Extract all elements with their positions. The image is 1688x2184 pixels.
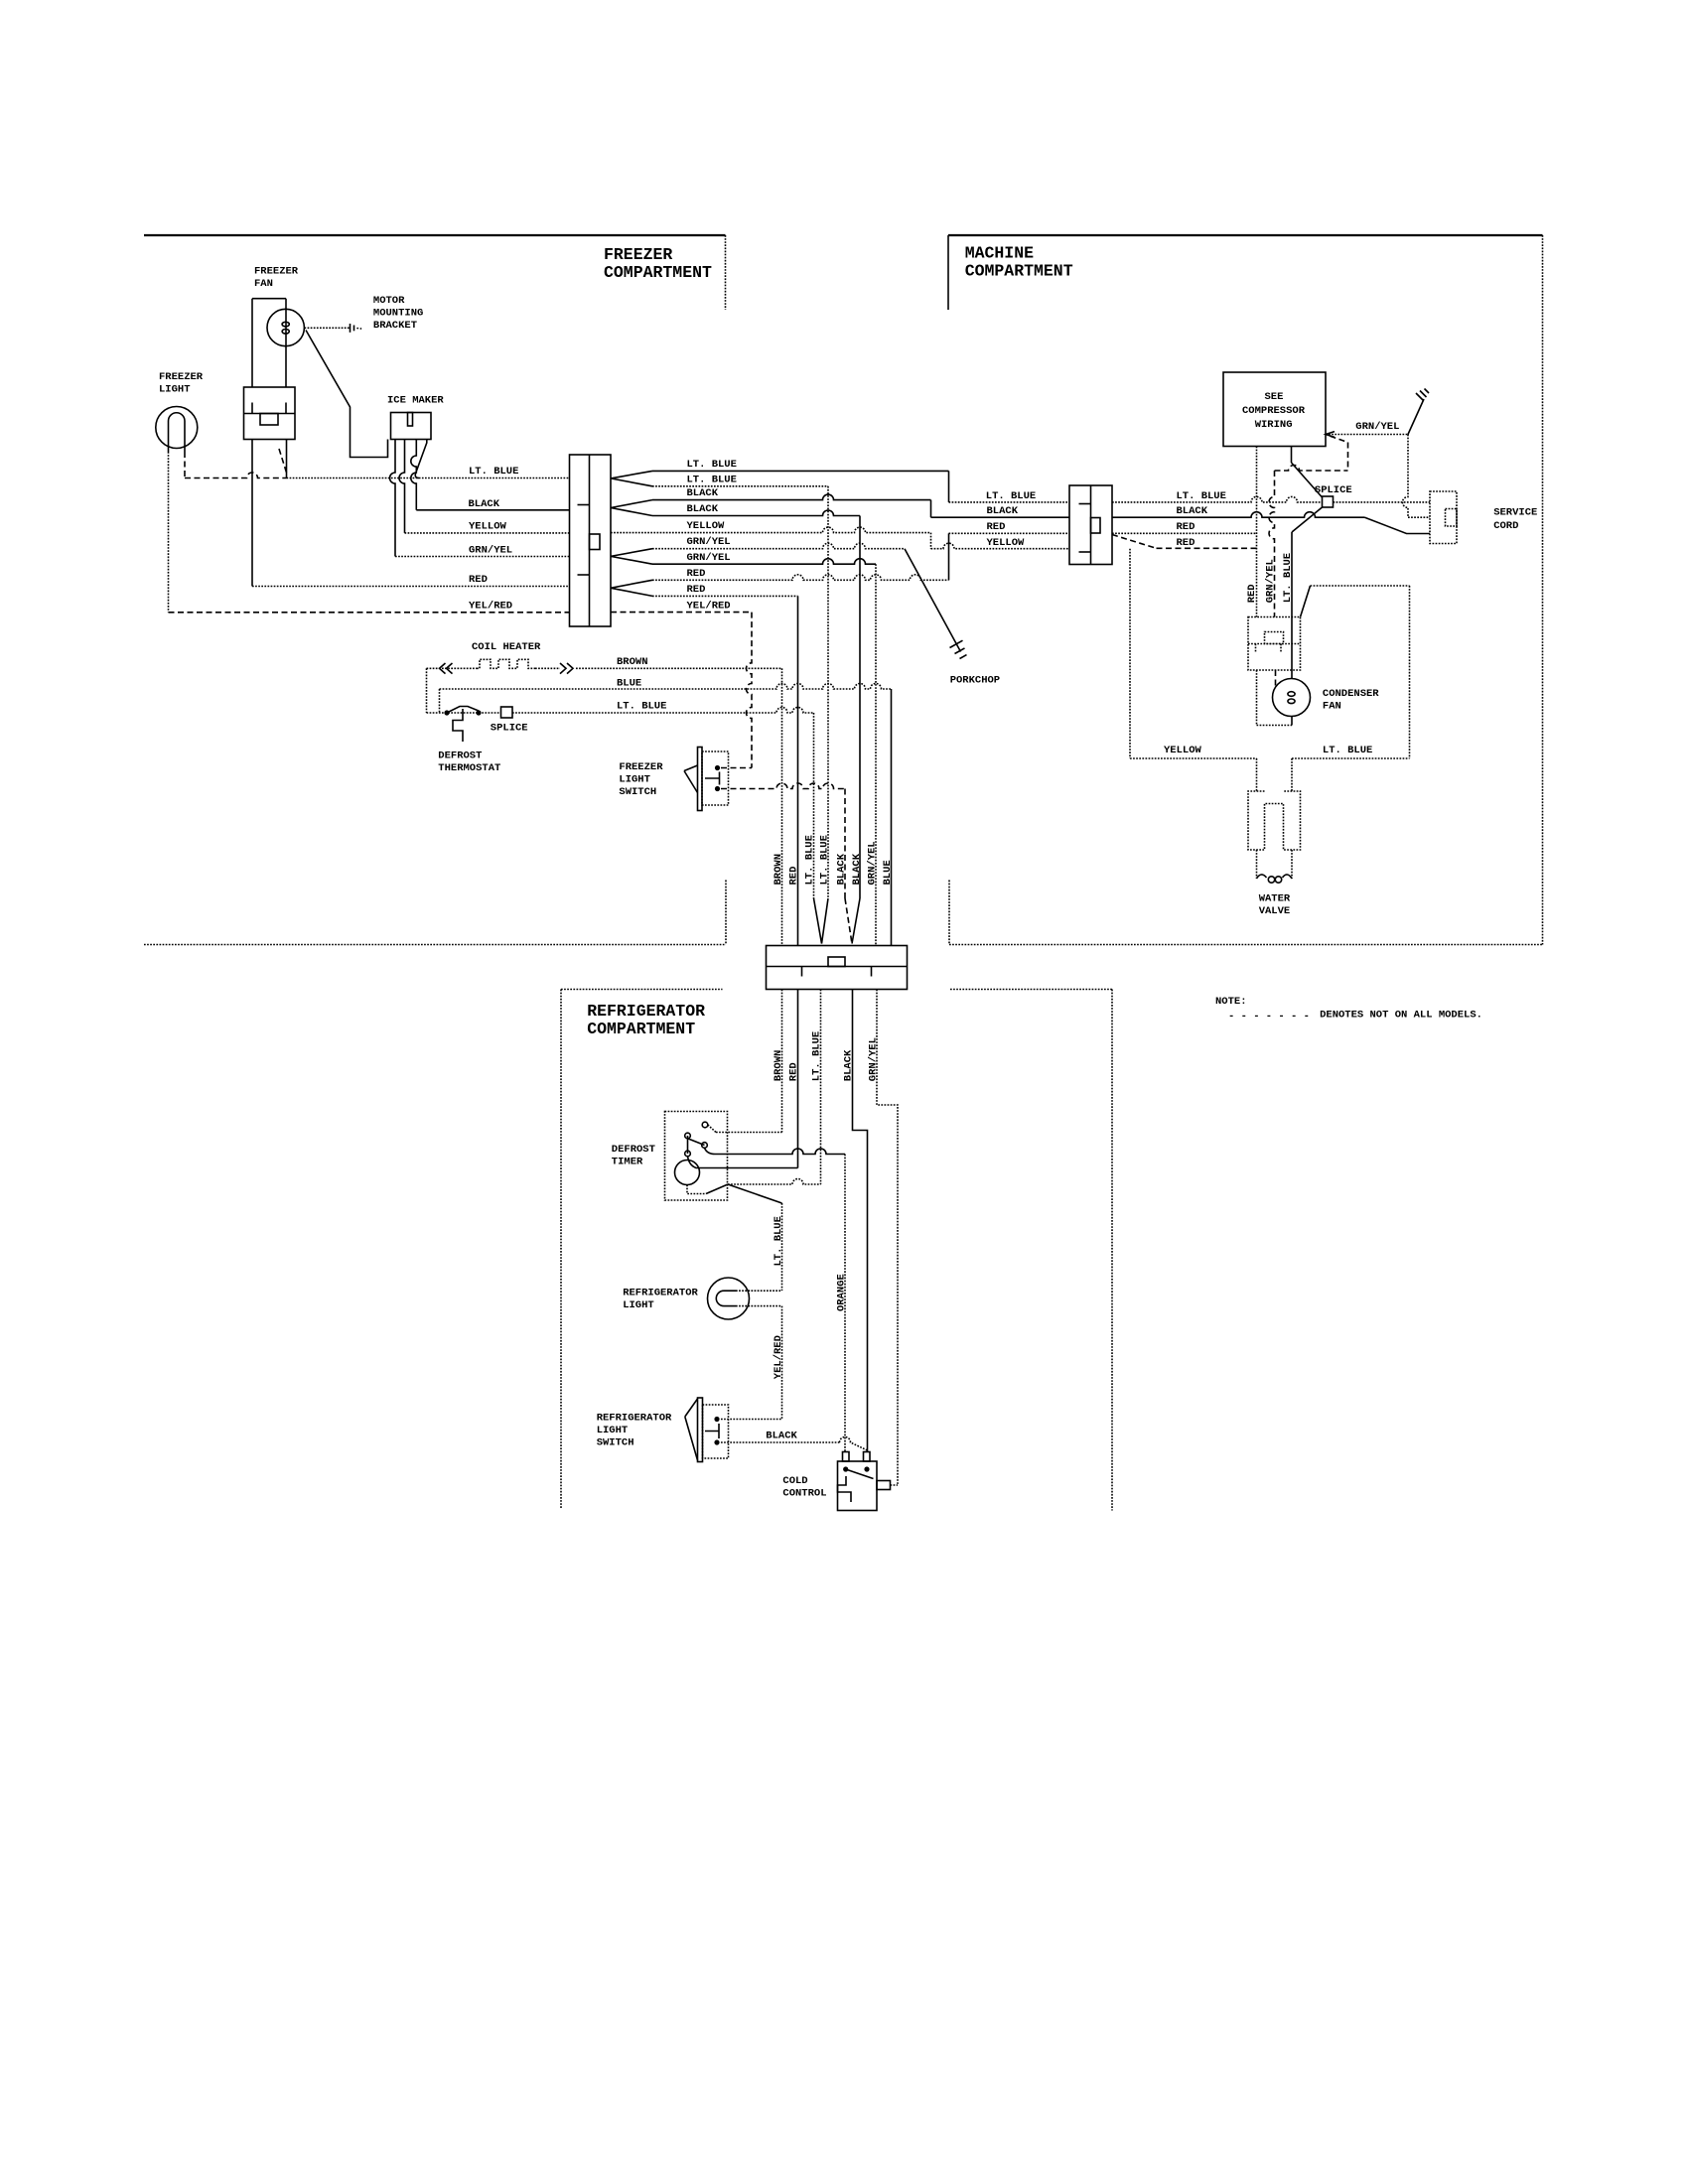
- wire LT BLUE to machine connector: [949, 501, 1070, 503]
- machine compartment right border: [1542, 235, 1544, 945]
- node BLACK step down: [930, 500, 932, 518]
- defrost thermostat lever: [447, 707, 479, 714]
- cold control label: [782, 1475, 826, 1500]
- service cord connector: [1430, 491, 1457, 544]
- wire LT BLUE to freezer connector: [287, 478, 570, 479]
- splice square machine: [1323, 496, 1334, 507]
- svg-text:CONDENSER: CONDENSER: [1323, 688, 1379, 700]
- wire LT BLUE to refr light diagonal: [728, 1184, 782, 1203]
- label YELLOW left: [469, 521, 507, 533]
- wire switch top dashed: [721, 767, 752, 769]
- machine compartment bottom border: [949, 881, 1543, 945]
- wire vertical LT BLUE heater: [813, 713, 815, 898]
- wire RED to machine connector: [949, 532, 1070, 534]
- wire vertical GRN/YEL to refr connector: [875, 564, 877, 945]
- note label: [1215, 996, 1247, 1008]
- wire taper LT BLUE pair: [611, 471, 652, 485]
- wire fan diagonal to ice maker: [306, 331, 388, 458]
- wire YELLOW to step: [611, 527, 931, 533]
- machine compartment top border: [948, 234, 1543, 236]
- porkchop label: [950, 675, 1000, 687]
- freezer compartment top border: [144, 234, 726, 236]
- svg-text:BLACK: BLACK: [687, 487, 719, 499]
- condenser fan motor M2: [1273, 679, 1311, 717]
- wire vertical BLACK to refr connector: [859, 516, 861, 899]
- wire vertical GRN/YEL dashed to relay: [1269, 471, 1275, 617]
- svg-text:REFRIGERATOR: REFRIGERATOR: [587, 1002, 705, 1021]
- defrost thermostat label: [438, 751, 500, 775]
- svg-text:GRN/YEL: GRN/YEL: [469, 544, 512, 556]
- label YELLOW bottom: [1164, 745, 1202, 756]
- svg-text:FREEZER: FREEZER: [604, 245, 672, 264]
- refrigerator light label: [623, 1287, 698, 1311]
- svg-text:RED: RED: [1177, 537, 1196, 549]
- refrigerator compartment left border: [560, 990, 562, 1510]
- refrigerator compartment top border: [561, 989, 1112, 991]
- wire GRN/YEL porkchop feed: [652, 543, 905, 549]
- label BLUE: [617, 678, 641, 690]
- svg-text:LIGHT: LIGHT: [623, 1299, 654, 1311]
- label BLACK lower: [687, 503, 719, 515]
- svg-text:SPLICE: SPLICE: [491, 722, 528, 734]
- label RED lower: [687, 584, 706, 596]
- refrigerator light switch body: [703, 1405, 729, 1458]
- freezer light switch terminals: [715, 765, 720, 791]
- wire RED machine dotted: [1112, 532, 1257, 534]
- wire YELLOW to freezer connector: [405, 532, 570, 534]
- svg-text:ORANGE: ORANGE: [836, 1274, 848, 1311]
- cold control right stub: [877, 1481, 891, 1490]
- wire vertical RED below: [797, 990, 799, 1168]
- water valve coil: [1257, 875, 1293, 883]
- node LT BLUE corner down: [948, 471, 950, 502]
- node RED riser up: [948, 533, 950, 580]
- svg-text:LT. BLUE: LT. BLUE: [687, 475, 737, 486]
- vertical wire labels machine: [1246, 553, 1294, 603]
- see compressor wiring label: [1242, 391, 1306, 431]
- wire taper LT BLUE merge: [814, 898, 829, 944]
- wire ORANGE from timer: [705, 1148, 846, 1154]
- refrigerator compartment right border: [1111, 990, 1113, 1511]
- svg-text:CORD: CORD: [1493, 520, 1518, 532]
- label BLACK left: [469, 498, 500, 510]
- svg-text:RED: RED: [1246, 584, 1258, 603]
- machine compartment title: [965, 244, 1073, 281]
- svg-text:FREEZER: FREEZER: [619, 761, 663, 773]
- ice maker lead YELLOW: [399, 440, 405, 533]
- svg-text:GRN/YEL: GRN/YEL: [687, 552, 731, 564]
- wire relay GRN/YEL lead: [1275, 670, 1277, 687]
- svg-text:WATER: WATER: [1259, 893, 1291, 905]
- svg-text:BLUE: BLUE: [617, 678, 641, 690]
- label LT BLUE upper: [687, 459, 737, 471]
- svg-text:COLD: COLD: [782, 1475, 807, 1487]
- svg-text:SERVICE: SERVICE: [1493, 506, 1537, 518]
- svg-text:REFRIGERATOR: REFRIGERATOR: [597, 1413, 672, 1425]
- porkchop hash marks: [950, 640, 967, 658]
- wire taper BLACK pair: [611, 500, 652, 516]
- wire RED down branch: [652, 595, 798, 597]
- water valve label: [1259, 893, 1291, 918]
- freezer light lamp: [156, 407, 198, 453]
- vertical wire labels above connector: [773, 835, 894, 885]
- cold control bellows: [838, 1476, 852, 1502]
- wire freezer light right lead dashed: [184, 452, 186, 478]
- wire BLACK hop and diagonal to cold control: [840, 1437, 868, 1451]
- svg-text:CONTROL: CONTROL: [782, 1488, 826, 1500]
- svg-text:LT. BLUE: LT. BLUE: [773, 1216, 784, 1266]
- svg-text:BLUE: BLUE: [882, 860, 894, 885]
- svg-text:GRN/YEL: GRN/YEL: [1355, 421, 1399, 433]
- wire fan to motor mounting bracket: [305, 327, 351, 329]
- label BLACK wire: [766, 1430, 797, 1441]
- wire vertical GRN/YEL below: [877, 990, 898, 1486]
- label LT BLUE bottom: [1323, 745, 1372, 756]
- svg-text:LIGHT: LIGHT: [159, 384, 191, 396]
- wire LT BLUE dashed from freezer light: [185, 473, 287, 478]
- refrigerator light switch plate: [698, 1398, 703, 1462]
- svg-text:PORKCHOP: PORKCHOP: [950, 675, 1000, 687]
- cold control contacts: [843, 1466, 870, 1471]
- refrigerator connector P2: [767, 946, 908, 990]
- svg-text:YELLOW: YELLOW: [469, 521, 507, 533]
- cold control lever: [846, 1469, 874, 1479]
- svg-text:WIRING: WIRING: [1255, 419, 1293, 431]
- wire YEL/RED to freezer connector: [169, 612, 570, 614]
- freezer fan bracket box: [244, 387, 296, 440]
- svg-text:RED: RED: [687, 568, 706, 580]
- freezer fan motor M1: [267, 309, 304, 345]
- defrost timer box: [665, 1112, 728, 1201]
- refrigerator light switch terminals: [714, 1417, 719, 1445]
- svg-text:VALVE: VALVE: [1259, 905, 1291, 917]
- motor mounting bracket symbol: [351, 324, 362, 333]
- svg-text:DEFROST: DEFROST: [438, 751, 482, 762]
- wire BROWN to corner: [576, 667, 782, 669]
- wire BLUE line: [440, 684, 892, 690]
- label BROWN: [617, 656, 648, 668]
- svg-text:RED: RED: [687, 584, 706, 596]
- freezer light switch label: [619, 761, 663, 798]
- node YELLOW step down: [930, 533, 932, 549]
- refrigerator compartment title: [587, 1002, 705, 1038]
- wire YEL/RED into switch: [721, 1419, 782, 1421]
- ice maker label: [387, 395, 444, 407]
- coil heater element BROWN line: [427, 659, 574, 673]
- label ORANGE vertical: [836, 1274, 848, 1311]
- defrost timer lever: [688, 1136, 705, 1154]
- wire YEL/RED to light switch: [611, 612, 752, 614]
- wire light top lead: [736, 1290, 782, 1292]
- wire RED dashed from connector: [1112, 535, 1257, 549]
- wire BLACK to service cord: [1112, 512, 1430, 534]
- wire porkchop diagonal: [905, 549, 961, 652]
- splice label machine: [1315, 484, 1352, 496]
- label GRN/YEL lower: [687, 552, 731, 564]
- svg-text:RED: RED: [987, 521, 1006, 533]
- wire vertical LT BLUE below: [820, 990, 822, 1185]
- svg-text:DEFROST: DEFROST: [612, 1144, 655, 1156]
- wire vertical LT BLUE to refr connector: [827, 486, 829, 898]
- cold control terminal stubs: [843, 1452, 871, 1462]
- svg-text:LT. BLUE: LT. BLUE: [986, 490, 1036, 502]
- wire condenser fan bottom lead: [1291, 717, 1293, 726]
- wire taper RED pair: [611, 580, 652, 596]
- vertical wire labels below connector: [773, 1031, 880, 1081]
- wire bracket right lead to LT BLUE: [286, 440, 288, 478]
- svg-text:COMPARTMENT: COMPARTMENT: [965, 261, 1073, 280]
- wire RED into timer: [688, 1157, 798, 1168]
- svg-text:LIGHT: LIGHT: [619, 774, 650, 786]
- wire vertical BLACK dashed: [844, 789, 846, 899]
- svg-text:SWITCH: SWITCH: [619, 786, 656, 798]
- wire BROWN into timer: [708, 1125, 782, 1133]
- svg-text:BLACK: BLACK: [987, 505, 1019, 517]
- label LT BLUE heater: [617, 700, 666, 712]
- wire freezer light left lead YEL/RED: [168, 452, 170, 613]
- label LT BLUE left: [469, 466, 518, 478]
- svg-text:LT. BLUE: LT. BLUE: [1282, 553, 1294, 603]
- wire vertical YEL/RED dashed: [747, 613, 753, 768]
- svg-text:LT. BLUE: LT. BLUE: [1323, 745, 1372, 756]
- svg-text:FREEZER: FREEZER: [254, 265, 299, 277]
- label RED machine right: [1177, 521, 1196, 533]
- wire LT BLUE loop to water valve: [1292, 586, 1410, 791]
- wire YELLOW to machine connector: [931, 543, 1070, 549]
- compressor relay box: [1248, 617, 1301, 671]
- wire YELLOW down from connector: [1129, 549, 1131, 758]
- svg-text:RED: RED: [788, 867, 800, 886]
- service cord label: [1493, 506, 1537, 532]
- defrost timer label: [612, 1144, 655, 1168]
- svg-text:YELLOW: YELLOW: [687, 520, 726, 532]
- svg-text:GRN/YEL: GRN/YEL: [1265, 559, 1277, 603]
- wire RED to freezer connector: [252, 586, 570, 588]
- svg-text:MOUNTING: MOUNTING: [373, 308, 423, 320]
- svg-text:DENOTES NOT ON ALL MODELS.: DENOTES NOT ON ALL MODELS.: [1320, 1010, 1482, 1022]
- freezer connector P1: [570, 455, 612, 626]
- wire bracket left lead to RED: [251, 440, 253, 587]
- svg-text:BLACK: BLACK: [1177, 505, 1208, 517]
- label YELLOW mid: [687, 520, 726, 532]
- svg-text:BROWN: BROWN: [617, 656, 648, 668]
- wire freezer fan top rail: [252, 298, 286, 300]
- freezer light switch body: [702, 751, 729, 805]
- splice square freezer: [501, 707, 513, 718]
- svg-text:COMPRESSOR: COMPRESSOR: [1242, 405, 1306, 417]
- refrigerator light switch label: [597, 1413, 672, 1449]
- label GRN/YEL left: [469, 544, 512, 556]
- svg-text:REFRIGERATOR: REFRIGERATOR: [623, 1287, 698, 1298]
- wire LT BLUE to splice: [1112, 496, 1323, 502]
- svg-text:COMPARTMENT: COMPARTMENT: [604, 263, 712, 282]
- see compressor wiring box: [1223, 372, 1326, 447]
- note text: [1320, 1010, 1482, 1022]
- wire BLACK to freezer connector: [416, 509, 569, 511]
- machine compartment left border stub: [947, 235, 949, 310]
- svg-text:FREEZER: FREEZER: [159, 371, 204, 383]
- svg-text:LIGHT: LIGHT: [597, 1425, 629, 1436]
- wire BLACK down branch: [652, 510, 860, 515]
- defrost thermostat sensor: [453, 709, 463, 742]
- defrost thermostat contacts: [444, 710, 481, 715]
- machine connector P3: [1069, 485, 1112, 565]
- svg-text:RED: RED: [1177, 521, 1196, 533]
- wire LT BLUE splice to service cord: [1334, 501, 1431, 503]
- label LT BLUE machine right: [1177, 490, 1226, 502]
- wire relay left lead: [1257, 670, 1293, 726]
- ice maker box: [391, 413, 432, 440]
- ice maker lead LT BLUE: [415, 440, 427, 478]
- svg-text:NOTE:: NOTE:: [1215, 996, 1247, 1008]
- label BLACK upper: [687, 487, 719, 499]
- wire vertical RED to refr connector: [797, 596, 799, 945]
- condenser fan label: [1323, 688, 1379, 713]
- svg-text:LT. BLUE: LT. BLUE: [617, 700, 666, 712]
- wire LT BLUE compressor to splice: [1292, 447, 1323, 498]
- note dash sample: [1228, 1011, 1310, 1023]
- wire LT BLUE solid to machine: [652, 470, 949, 472]
- svg-text:ICE MAKER: ICE MAKER: [387, 395, 444, 407]
- freezer light switch flag: [684, 765, 698, 793]
- wire vertical YEL/RED to switch: [781, 1306, 783, 1420]
- wire vertical RED to relay: [1256, 447, 1258, 617]
- wire GRN/YEL with arrow: [1326, 432, 1408, 438]
- wire dashed stub at bracket: [279, 449, 287, 473]
- freezer compartment bottom border: [144, 881, 726, 945]
- svg-text:YEL/RED: YEL/RED: [773, 1335, 784, 1379]
- svg-text:BLACK: BLACK: [766, 1430, 797, 1441]
- svg-text:YELLOW: YELLOW: [987, 537, 1026, 549]
- label LT BLUE vertical: [773, 1216, 784, 1266]
- svg-text:- - - - - - -: - - - - - - -: [1228, 1011, 1310, 1023]
- svg-text:MOTOR: MOTOR: [373, 295, 405, 307]
- node coil heater left corner: [426, 668, 428, 713]
- freezer light label: [159, 371, 204, 396]
- wire splice diagonal to LT BLUE vertical: [1292, 507, 1323, 679]
- svg-text:FAN: FAN: [1323, 700, 1341, 712]
- wire vertical BROWN below: [781, 990, 783, 1133]
- svg-text:GRN/YEL: GRN/YEL: [868, 1037, 880, 1081]
- water valve box: [1248, 791, 1301, 850]
- refrigerator light switch flag: [685, 1399, 698, 1460]
- wire freezer fan left lead: [251, 299, 253, 387]
- wire LT BLUE into timer: [728, 1179, 821, 1184]
- defrost timer contacts: [685, 1122, 708, 1157]
- svg-text:COMPARTMENT: COMPARTMENT: [587, 1020, 695, 1038]
- svg-text:COIL HEATER: COIL HEATER: [472, 641, 541, 653]
- refrigerator light switch actuator: [705, 1424, 719, 1438]
- svg-text:LT. BLUE: LT. BLUE: [687, 459, 737, 471]
- wire LT BLUE dotted down branch: [652, 485, 828, 487]
- svg-text:SEE: SEE: [1265, 391, 1284, 403]
- wire vertical GRN/YEL to service cord: [1403, 435, 1431, 518]
- freezer light switch actuator: [705, 772, 720, 785]
- svg-text:BLACK: BLACK: [851, 853, 863, 885]
- svg-text:YELLOW: YELLOW: [1164, 745, 1202, 756]
- freezer fan label: [254, 265, 299, 290]
- defrost timer motor: [675, 1160, 700, 1185]
- wire vertical BROWN: [781, 668, 783, 945]
- label RED left: [469, 574, 488, 586]
- label LT BLUE dotted: [687, 475, 737, 486]
- wire light bottom lead: [736, 1305, 782, 1307]
- svg-text:BRACKET: BRACKET: [373, 320, 417, 332]
- wire GRN/YEL into cold control: [891, 1484, 899, 1486]
- freezer light switch plate: [698, 748, 703, 811]
- wire GRN/YEL down branch: [652, 559, 876, 565]
- wire freezer fan right lead: [285, 299, 287, 387]
- wire LT BLUE heater line: [512, 708, 814, 714]
- wire thermostat segment: [427, 712, 501, 714]
- svg-text:TIMER: TIMER: [612, 1156, 643, 1167]
- svg-text:BLACK: BLACK: [687, 503, 719, 515]
- svg-text:SWITCH: SWITCH: [597, 1437, 634, 1449]
- wire switch bottom dashed BLACK: [721, 783, 845, 789]
- svg-text:BLACK: BLACK: [469, 498, 500, 510]
- ice maker lead BLACK: [411, 440, 416, 510]
- svg-text:LT. BLUE: LT. BLUE: [819, 835, 831, 885]
- refrigerator light lamp: [708, 1278, 750, 1319]
- wire BLACK to machine connector: [931, 516, 1070, 518]
- label YEL/RED vertical: [773, 1335, 784, 1379]
- svg-text:GRN/YEL: GRN/YEL: [687, 536, 731, 548]
- wire taper GRN/YEL pair: [611, 549, 652, 565]
- freezer compartment right border stub: [725, 235, 727, 310]
- svg-text:RED: RED: [469, 574, 488, 586]
- svg-text:SPLICE: SPLICE: [1315, 484, 1352, 496]
- wire GRN/YEL antenna: [1408, 389, 1429, 435]
- label RED dashed right: [1177, 537, 1196, 549]
- svg-text:LT. BLUE: LT. BLUE: [1177, 490, 1226, 502]
- wire RED to machine riser: [652, 575, 949, 581]
- motor mounting bracket label: [373, 295, 423, 332]
- wire GRN/YEL dashed branch: [1275, 436, 1348, 471]
- label YEL/RED right: [687, 600, 731, 612]
- svg-text:BLACK: BLACK: [836, 853, 848, 885]
- label RED machine left: [987, 521, 1006, 533]
- wire GRN/YEL to freezer connector: [395, 556, 570, 558]
- svg-text:YEL/RED: YEL/RED: [469, 600, 512, 612]
- label GRN/YEL upper: [687, 536, 731, 548]
- splice label freezer: [491, 722, 528, 734]
- svg-text:MACHINE: MACHINE: [965, 244, 1034, 263]
- svg-text:YEL/RED: YEL/RED: [687, 600, 731, 612]
- svg-text:LT. BLUE: LT. BLUE: [469, 466, 518, 478]
- cold control box: [838, 1461, 878, 1511]
- wire BLACK solid to machine: [652, 494, 931, 500]
- wire vertical BLUE to refr connector: [891, 689, 893, 946]
- wire water valve left lead: [1256, 850, 1258, 879]
- wire timer motor junction: [687, 1184, 728, 1194]
- wire taper BLACK merge: [845, 898, 860, 944]
- label LT BLUE machine left: [986, 490, 1036, 502]
- wire vertical LT BLUE to light: [781, 1203, 783, 1291]
- label RED upper: [687, 568, 706, 580]
- coil heater label: [472, 641, 541, 653]
- svg-text:FAN: FAN: [254, 278, 273, 290]
- label YELLOW machine left: [987, 537, 1026, 549]
- svg-text:BROWN: BROWN: [773, 854, 784, 886]
- wire vertical BLACK below: [853, 990, 868, 1452]
- wire YELLOW to water valve: [1130, 758, 1257, 791]
- label BLACK machine left: [987, 505, 1019, 517]
- ice maker lead GRN/YEL: [390, 440, 395, 557]
- wire water valve right lead: [1291, 850, 1293, 879]
- svg-text:THERMOSTAT: THERMOSTAT: [438, 762, 500, 774]
- svg-text:GRN/YEL: GRN/YEL: [867, 841, 879, 885]
- wire vertical ORANGE: [844, 1155, 846, 1452]
